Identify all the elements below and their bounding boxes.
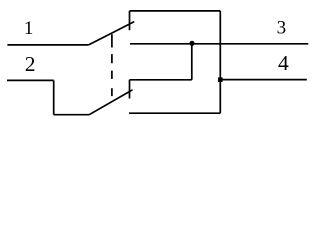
wire: terminal 2 bottom run (54, 114, 89, 116)
svg-text:2: 2 (25, 52, 36, 76)
wire: box bottom edge (129, 112, 220, 114)
fixed contact stub (pole 2) (129, 80, 131, 99)
fixed contact stub (pole 1) (129, 11, 131, 30)
switch blade S1b (pole 2) (89, 90, 132, 115)
svg-text:4: 4 (278, 51, 289, 75)
wire: box top edge (130, 10, 221, 12)
wire terminal 4 (220, 79, 306, 81)
svg-text:3: 3 (277, 18, 287, 39)
wire: terminal 2 vertical drop (53, 80, 55, 114)
mechanical coupling (dashed link) (111, 34, 113, 101)
wire terminal 3 (130, 43, 308, 45)
junction node on wire 3 (189, 41, 194, 46)
wire terminal 2 (7, 79, 54, 81)
wire terminal 1 (7, 44, 88, 46)
wire: box right edge (219, 11, 221, 113)
switch blade S1a (pole 1) (89, 22, 135, 45)
wire: internal horizontal to pole-2 contact (130, 79, 192, 81)
wire: internal vertical from node to pole-2 contact (191, 44, 193, 80)
svg-text:1: 1 (24, 18, 34, 39)
junction node on box right edge (terminal 4) (218, 77, 223, 82)
